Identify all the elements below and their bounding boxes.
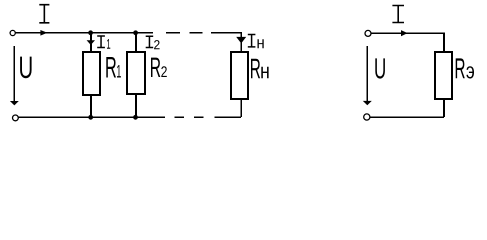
current arrowhead I (left) xyxy=(40,30,47,36)
label I1 xyxy=(97,36,105,48)
label RЭ xyxy=(456,58,465,78)
wire bottom main xyxy=(18,116,165,118)
wire top main xyxy=(15,32,153,34)
voltage arrowhead U left xyxy=(10,101,19,105)
wire branch R2 upper xyxy=(135,34,137,53)
current arrowhead I (right) xyxy=(401,30,408,36)
resistor RЭ xyxy=(435,52,452,99)
wire branch R2 lower xyxy=(135,94,137,117)
label U right xyxy=(375,58,385,78)
wire branch R1 lower xyxy=(90,95,92,117)
voltage arrowhead U right xyxy=(363,101,372,105)
voltage arrow U left xyxy=(13,46,15,101)
label R1 xyxy=(106,57,116,78)
label RH subscript н xyxy=(261,67,268,79)
label R1 subscript 1 xyxy=(117,65,121,78)
junction dot top R1 xyxy=(88,30,93,35)
resistor RH xyxy=(231,52,248,99)
wire branch RH lower xyxy=(240,99,242,117)
terminal top-left xyxy=(10,30,15,35)
label I2 xyxy=(146,36,154,47)
label I1 subscript 1 xyxy=(107,39,110,49)
resistor R1 xyxy=(83,52,100,95)
label U left xyxy=(20,57,31,79)
label RЭ subscript э xyxy=(466,66,474,78)
wire bottom right-circuit xyxy=(370,116,444,118)
junction dot top R2 xyxy=(133,30,138,35)
wire top dashed section xyxy=(166,32,203,34)
voltage arrow U right xyxy=(366,46,368,101)
label I2 subscript 2 xyxy=(154,40,159,49)
terminal bottom-right xyxy=(364,114,370,120)
junction dot bottom R2 xyxy=(133,115,138,120)
label R2 xyxy=(151,58,160,77)
wire bottom right xyxy=(214,116,241,118)
label IH subscript н xyxy=(257,39,263,48)
junction dot bottom R1 xyxy=(88,115,93,120)
resistor R2 xyxy=(127,52,145,94)
wire top right + RH branch drop xyxy=(211,33,241,52)
terminal top-right xyxy=(365,30,371,36)
label I (right) xyxy=(392,6,404,23)
current arrowhead I1 xyxy=(87,40,95,45)
label I (left) xyxy=(39,5,49,23)
wire top right-circuit + RЭ branch drop xyxy=(371,33,444,52)
label RH xyxy=(251,59,260,78)
terminal bottom-left xyxy=(13,115,19,121)
current arrowhead IH xyxy=(236,37,246,44)
wire branch R1 upper xyxy=(90,34,92,53)
wire bottom dashed section xyxy=(175,116,204,118)
label R2 subscript 2 xyxy=(161,66,167,77)
label IH xyxy=(248,35,256,47)
wire branch RЭ lower xyxy=(443,99,445,117)
